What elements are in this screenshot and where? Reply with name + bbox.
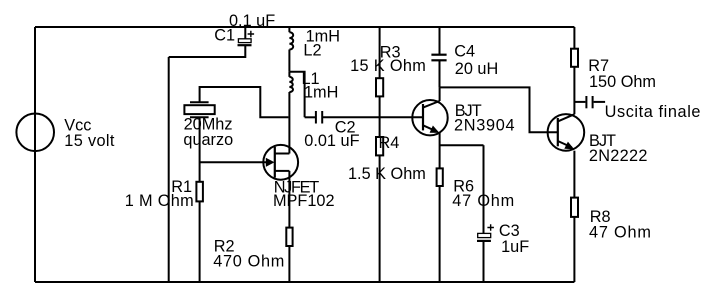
wire collector node to output capacitor bbox=[574, 101, 585, 103]
wire crystal top to drain node bbox=[200, 87, 289, 117]
wire emitter node to C3 bbox=[440, 144, 484, 146]
wire C1 return vertical to ground rail bbox=[168, 57, 170, 282]
capacitor C4 bbox=[431, 55, 446, 61]
resistor R7 bbox=[571, 49, 578, 67]
svg-text:1.5 K Ohm: 1.5 K Ohm bbox=[348, 165, 426, 183]
wire C1 bottom to left return bbox=[169, 45, 246, 57]
svg-text:R4: R4 bbox=[379, 134, 400, 152]
inductor L1 bbox=[289, 72, 293, 92]
crystal 20Mhz quarzo bbox=[184, 102, 214, 117]
svg-text:0.01 uF: 0.01 uF bbox=[304, 132, 359, 150]
wire tap between L2 and L1 to C2 bbox=[289, 72, 304, 118]
wire R3 bottom to node bbox=[379, 96, 381, 117]
wire R8 to ground rail bbox=[573, 217, 575, 282]
source Vcc 15 volt bbox=[16, 114, 54, 152]
transistor Q2 BJT 2N2222 bbox=[548, 114, 585, 151]
wire C3 top lead bbox=[483, 145, 485, 233]
wire left rail (Vcc branch) bbox=[34, 27, 36, 282]
svg-text:Uscita finale: Uscita finale bbox=[605, 103, 701, 121]
transistor Q1 BJT 2N3904 bbox=[412, 100, 447, 135]
wire collector node to base of Q2 bbox=[440, 87, 558, 132]
capacitor C1 top lead bbox=[244, 27, 246, 39]
resistor R1 bbox=[196, 182, 203, 202]
svg-text:2N2222: 2N2222 bbox=[589, 147, 648, 165]
wire JFET source to R2 bbox=[288, 171, 290, 228]
wire Q2 emitter to R8 bbox=[573, 151, 575, 198]
svg-text:C1: C1 bbox=[214, 26, 235, 44]
svg-text:quarzo: quarzo bbox=[183, 131, 233, 149]
capacitor output coupling bbox=[586, 96, 592, 108]
svg-text:150 Ohm: 150 Ohm bbox=[589, 73, 656, 91]
wire tap to C2 left plate bbox=[305, 116, 316, 118]
wire bottom ground rail bbox=[35, 281, 574, 283]
svg-text:2N3904: 2N3904 bbox=[454, 117, 515, 135]
wire C3 to ground rail bbox=[483, 241, 485, 282]
wire top supply rail bbox=[35, 26, 574, 28]
wire L1 bottom to JFET drain bbox=[288, 92, 290, 154]
wire C2 to R3/R4 node and base of Q1 bbox=[323, 116, 423, 118]
svg-text:15 K Ohm: 15 K Ohm bbox=[350, 57, 426, 75]
inductor L2 bbox=[289, 27, 293, 72]
wire R6 to ground rail bbox=[439, 186, 441, 282]
wire Q1 emitter to R6 bbox=[439, 133, 441, 169]
resistor R2 bbox=[286, 228, 292, 246]
capacitor C2 bbox=[316, 111, 322, 124]
wire R7 top lead bbox=[573, 27, 575, 49]
transistor U1 NJFET MPF102 bbox=[263, 145, 298, 180]
wire R3 top bbox=[379, 27, 381, 78]
wire crystal bottom to R1 bbox=[199, 117, 201, 182]
svg-text:20 uH: 20 uH bbox=[455, 60, 498, 78]
svg-text:C4: C4 bbox=[454, 43, 475, 61]
svg-text:1mH: 1mH bbox=[304, 84, 338, 102]
wire gate of JFET bbox=[200, 161, 267, 163]
wire R7 to Q2 collector bbox=[573, 67, 575, 114]
resistor R4 bbox=[376, 137, 383, 155]
wire Q1 collector lead bbox=[439, 87, 441, 101]
svg-text:1uF: 1uF bbox=[501, 238, 529, 256]
wire node to R4 bbox=[379, 117, 381, 137]
resistor R6 bbox=[437, 168, 443, 186]
capacitor C4 top lead bbox=[439, 27, 441, 55]
svg-text:470 Ohm: 470 Ohm bbox=[213, 252, 285, 270]
wire R4 to ground rail bbox=[379, 155, 381, 282]
wire C4 bottom to collector node bbox=[439, 60, 441, 87]
svg-text:1 M Ohm: 1 M Ohm bbox=[125, 192, 194, 210]
wire R1 to ground rail bbox=[199, 201, 201, 282]
svg-text:MPF102: MPF102 bbox=[273, 192, 335, 210]
wire output capacitor to Uscita finale bbox=[594, 101, 606, 103]
svg-text:L2: L2 bbox=[303, 42, 321, 60]
capacitor C1 bbox=[238, 31, 255, 46]
wire R2 to ground rail bbox=[288, 246, 290, 282]
svg-text:0.1 uF: 0.1 uF bbox=[229, 12, 275, 30]
svg-text:47 Ohm: 47 Ohm bbox=[452, 192, 515, 210]
svg-text:47 Ohm: 47 Ohm bbox=[589, 224, 652, 242]
op-amp: gate arrow of JFET bbox=[266, 158, 275, 167]
svg-text:15 volt: 15 volt bbox=[64, 132, 115, 150]
resistor R3 bbox=[376, 78, 383, 96]
capacitor C3 bbox=[477, 224, 494, 241]
resistor R8 bbox=[571, 198, 578, 217]
